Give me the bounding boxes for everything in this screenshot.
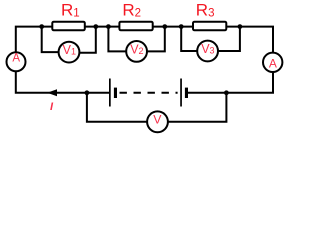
node j4 — [162, 24, 167, 29]
wire voltmeter V1 left branch — [42, 27, 59, 52]
wire voltmeter V3 right branch — [218, 27, 240, 51]
voltmeter V circle (across battery) — [147, 111, 168, 132]
node battery left — [85, 90, 90, 95]
wire voltmeter V lower branch left — [87, 93, 147, 122]
svg-text:A: A — [12, 53, 20, 65]
battery cell 1 short plate — [114, 88, 117, 98]
battery cell 2 short plate — [185, 88, 188, 98]
resistor R3 — [193, 22, 226, 31]
wire voltmeter V lower branch right — [168, 93, 227, 122]
wire battery dashed link (omitted cells) — [120, 92, 178, 94]
wire voltmeter V1 right branch — [80, 27, 96, 53]
wire left ammeter to bottom bus — [16, 72, 109, 93]
node j6 — [238, 24, 243, 29]
svg-text:A: A — [269, 56, 277, 70]
node battery right — [224, 90, 229, 95]
wire voltmeter V3 left branch — [181, 27, 197, 51]
node j5 — [179, 24, 184, 29]
node j1 — [39, 24, 44, 29]
node j2 — [93, 24, 98, 29]
battery cell 1 long plate — [109, 79, 111, 107]
voltmeter V3 circle — [197, 41, 218, 62]
voltmeter V1 circle — [59, 42, 80, 63]
resistor R1 — [52, 22, 85, 31]
wire voltmeter V2 left branch — [108, 27, 126, 52]
ammeter A (left) — [7, 52, 26, 71]
resistor R2 — [119, 22, 152, 31]
node j3 — [106, 24, 111, 29]
wire top bus (left corner to right corner) — [16, 27, 273, 53]
wire voltmeter V2 right branch — [147, 27, 165, 52]
voltmeter V2 circle — [126, 41, 147, 62]
current arrow I (pointing left) — [47, 89, 57, 96]
battery cell 2 long plate — [180, 79, 182, 107]
ammeter A (right) — [263, 53, 282, 72]
svg-text:V: V — [153, 113, 162, 127]
wire right ammeter to bottom bus — [188, 72, 274, 93]
